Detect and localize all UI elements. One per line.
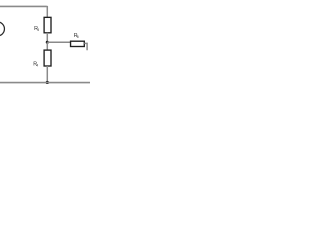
wire top horizontal xyxy=(0,5,47,7)
resistor R4 xyxy=(44,50,51,66)
node A junction dot xyxy=(46,41,49,44)
resistor R5 xyxy=(71,41,85,46)
svg-text:4: 4 xyxy=(36,63,38,67)
wire R4 bottom lead to node B xyxy=(46,66,48,83)
resistor R3 xyxy=(44,17,51,32)
node B junction dot xyxy=(46,81,49,84)
svg-text:5: 5 xyxy=(77,35,79,39)
wire corner down to R3 top lead xyxy=(46,6,48,18)
wire bottom horizontal xyxy=(0,82,90,84)
wire node A down to R4 top lead xyxy=(46,42,48,50)
voltage source V1 (circle cropped at left image edge) xyxy=(0,22,4,36)
wire R5 right lead with corner stub going down xyxy=(84,43,87,50)
svg-text:3: 3 xyxy=(37,28,39,32)
wire node A to R5 left lead xyxy=(47,41,70,43)
wire R3 bottom lead to node A xyxy=(46,33,48,43)
